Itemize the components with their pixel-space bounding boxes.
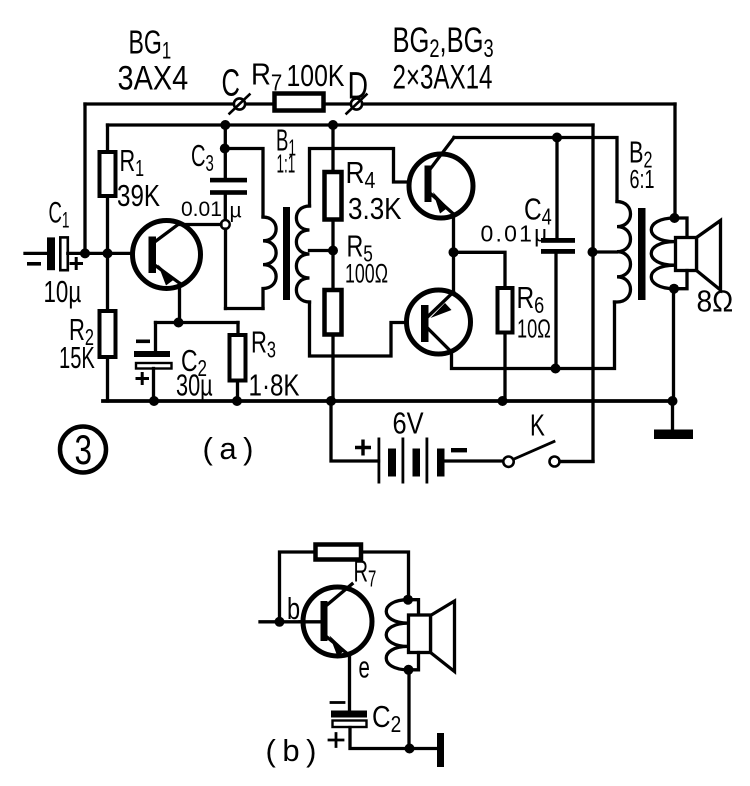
svg-text:BG2,BG3: BG2,BG3 bbox=[393, 21, 494, 63]
capacitor C2b plus sign bbox=[329, 734, 343, 747]
capacitor C3 plate top bbox=[210, 178, 247, 183]
wire R7b left to base node bbox=[280, 552, 316, 622]
speaker b box bbox=[409, 615, 431, 653]
svg-text:30µ: 30µ bbox=[176, 368, 213, 403]
svg-text:C: C bbox=[222, 61, 240, 103]
wire ground stub bbox=[671, 401, 674, 430]
svg-text:3.3K: 3.3K bbox=[348, 192, 402, 227]
wire supply drop right side bbox=[560, 125, 593, 462]
node dot base-left bbox=[80, 248, 90, 258]
svg-text:µ: µ bbox=[230, 200, 242, 223]
capacitor C4 plate bottom bbox=[541, 249, 575, 254]
transistor BG1 emitter bbox=[156, 266, 180, 284]
wire R7b right down bbox=[361, 552, 409, 598]
wire branch down to C3 bbox=[224, 149, 227, 179]
svg-text:100K: 100K bbox=[287, 58, 345, 92]
svg-text:0.01µ: 0.01µ bbox=[481, 221, 550, 247]
svg-text:(b): (b) bbox=[266, 733, 323, 768]
node dot C4 top bbox=[552, 133, 562, 143]
svg-text:6V: 6V bbox=[393, 406, 424, 441]
wire BG3 collector to B2 primary bottom bbox=[452, 302, 615, 369]
svg-text:3AX4: 3AX4 bbox=[118, 58, 189, 97]
capacitor C2 negative plate bbox=[134, 351, 170, 357]
wire emitter row bbox=[156, 321, 239, 324]
wire base into bar bbox=[300, 620, 321, 623]
node D terminal circle bbox=[351, 98, 362, 109]
node dot base b bbox=[275, 617, 285, 627]
switch K lever bbox=[514, 442, 554, 460]
capacitor C2b minus mark bbox=[331, 701, 344, 704]
wire BG2 collector line to B2 primary top bbox=[454, 138, 617, 202]
resistor R1 bbox=[100, 152, 116, 196]
node collector open circle bbox=[221, 220, 230, 229]
transistor b emitter arrowhead bbox=[330, 636, 346, 657]
switch K left contact bbox=[503, 457, 513, 467]
wire speaker b top jog bbox=[408, 600, 419, 615]
transistor BG3 collector bbox=[429, 329, 452, 352]
battery cell plate long 3 bbox=[426, 438, 429, 484]
svg-text:1:1: 1:1 bbox=[277, 150, 296, 179]
transistor BG1 collector bbox=[156, 225, 221, 242]
wire emitters to R6 bbox=[454, 252, 506, 288]
wire input lead to C1 bbox=[25, 252, 47, 255]
svg-text:8Ω: 8Ω bbox=[697, 284, 734, 319]
wire B1 center tap bbox=[310, 249, 334, 252]
capacitor C2b negative plate bbox=[331, 711, 367, 718]
wire up to speaker b bbox=[407, 670, 410, 749]
transistor BG1 emitter arrowhead bbox=[158, 265, 174, 286]
battery cell plate long 1 bbox=[378, 438, 381, 484]
label C2a minus bbox=[136, 340, 150, 344]
svg-text:15K: 15K bbox=[59, 340, 95, 376]
svg-text:1·8K: 1·8K bbox=[249, 368, 300, 403]
wire C3 to collector node bbox=[224, 195, 227, 220]
transformer B2 core bbox=[638, 208, 646, 300]
wire down to C2 bbox=[154, 323, 157, 351]
label battery minus bbox=[451, 448, 467, 452]
svg-text:39K: 39K bbox=[117, 178, 160, 213]
wire R2 to bottom rail bbox=[106, 357, 109, 401]
label C2a plus bbox=[136, 372, 150, 385]
transistor BG3 emitter bbox=[429, 292, 454, 316]
transistor BG3 emitter arrowhead bbox=[431, 303, 452, 318]
resistor R2 bbox=[100, 311, 116, 357]
svg-text:b: b bbox=[287, 591, 300, 626]
wire C2b to ground row bbox=[350, 728, 437, 749]
node D slash bbox=[347, 95, 367, 114]
wire BG2 emitter down bbox=[452, 214, 455, 292]
transistor BG2 collector bbox=[431, 138, 454, 169]
node dot R4-R5 tap bbox=[328, 246, 338, 256]
wire left edge from top rail to base node bbox=[83, 104, 86, 253]
wire speaker bottom jog bbox=[674, 271, 687, 289]
node dot speaker bottom bbox=[669, 284, 679, 294]
wire emitter row to R3 bbox=[236, 323, 239, 336]
svg-text:K: K bbox=[530, 408, 545, 442]
node dot emitters mid bbox=[449, 247, 459, 257]
wire tap to R5 bbox=[331, 251, 334, 291]
svg-text:3: 3 bbox=[75, 426, 93, 474]
svg-text:100Ω: 100Ω bbox=[345, 258, 388, 289]
transformer B1 core bbox=[283, 207, 290, 300]
svg-text:6:1: 6:1 bbox=[630, 165, 655, 194]
wire speaker b bottom jog bbox=[409, 653, 419, 670]
wire R3 to bottom rail bbox=[236, 381, 239, 402]
battery cell plate short 2 bbox=[413, 449, 421, 477]
wire BG1 emitter down bbox=[178, 284, 181, 323]
node dot rail-R3 bbox=[232, 396, 242, 406]
transistor b base bar bbox=[321, 601, 328, 641]
svg-text:D: D bbox=[348, 66, 369, 108]
speaker box bbox=[676, 238, 697, 271]
wire rail2 to R4 bbox=[331, 125, 334, 172]
wire emitter b down to C2 bbox=[348, 656, 351, 711]
capacitor C3 plate bottom bbox=[210, 190, 247, 195]
ground bar bbox=[654, 430, 693, 440]
wire R5 to bottom rail bbox=[331, 335, 334, 402]
transistor BG3 circle bbox=[407, 290, 471, 354]
speaker cone bbox=[697, 221, 721, 291]
node dot speaker b top bbox=[403, 595, 413, 605]
node dot speaker b bottom bbox=[404, 665, 414, 675]
transistor BG3 base bar bbox=[421, 305, 429, 342]
node dot rail-R5-battery bbox=[326, 396, 336, 406]
resistor R7 top bbox=[275, 94, 324, 111]
wire rail2 to R1 bbox=[106, 125, 109, 152]
node dot C4 bottom bbox=[551, 364, 561, 374]
wire R6 to bottom rail bbox=[503, 333, 506, 402]
label C1 plus bbox=[70, 257, 84, 270]
capacitor C1 negative plate bbox=[47, 237, 55, 270]
svg-text:2×3AX14: 2×3AX14 bbox=[393, 59, 493, 97]
speaker b cone bbox=[431, 601, 455, 672]
transistor b circle bbox=[303, 587, 372, 656]
wire speaker bottom to rail end bbox=[672, 289, 675, 401]
node C terminal circle bbox=[234, 98, 245, 109]
svg-text:10µ: 10µ bbox=[44, 274, 82, 308]
wire R1 to R2 bbox=[106, 196, 109, 311]
node dot rail2-C3 bbox=[220, 120, 230, 130]
wire switch to supply drop bbox=[560, 460, 593, 463]
wire battery to switch bbox=[445, 459, 504, 462]
battery cell plate short 1 bbox=[388, 449, 396, 477]
node dot rail2-R4 bbox=[328, 120, 338, 130]
svg-text:0.01: 0.01 bbox=[181, 198, 222, 221]
wire to B1 primary bottom bbox=[226, 307, 264, 310]
wire rail2 down to branch bbox=[224, 125, 227, 149]
capacitor C4 plate top bbox=[541, 238, 575, 243]
wire C4 bottom lead bbox=[554, 254, 557, 369]
transistor b collector bbox=[328, 584, 353, 605]
wire battery feed left bbox=[331, 401, 379, 461]
wire R4 to tap node bbox=[331, 220, 334, 251]
resistor R5 bbox=[325, 290, 342, 335]
node dot speaker top bbox=[670, 213, 680, 223]
resistor R7 in (b) bbox=[316, 545, 362, 560]
wire bottom rail bbox=[103, 399, 673, 403]
node dot ground row b bbox=[405, 744, 415, 754]
resistor R4 bbox=[325, 172, 342, 220]
ground bar b bbox=[437, 733, 444, 767]
wire C2 to bottom rail bbox=[152, 369, 155, 402]
svg-text:e: e bbox=[359, 649, 370, 684]
label C1 minus bbox=[27, 262, 41, 266]
winding b bbox=[386, 600, 408, 670]
wire collector node down bbox=[224, 229, 227, 309]
transistor BG2 circle bbox=[409, 154, 473, 218]
battery cell plate short 3 bbox=[437, 449, 445, 477]
capacitor C1 positive plate bbox=[60, 237, 68, 270]
node dot emitter bbox=[174, 318, 184, 328]
wire B1 secondary top to BG2 base bbox=[310, 149, 425, 207]
transformer B1 secondary winding bbox=[296, 206, 309, 302]
resistor R3 bbox=[230, 335, 246, 381]
switch K right contact bbox=[550, 457, 560, 467]
battery cell plate long 2 bbox=[402, 438, 405, 484]
figure number circle 3 bbox=[60, 427, 106, 473]
resistor R6 bbox=[498, 288, 513, 333]
wire B1 secondary bottom to BG3 base bbox=[310, 302, 422, 356]
transistor BG2 emitter arrowhead bbox=[433, 192, 448, 214]
wire right edge down to speaker top bbox=[673, 104, 676, 218]
label battery plus bbox=[355, 440, 371, 456]
transistor BG2 emitter bbox=[431, 194, 454, 214]
node dot rail-R6 bbox=[498, 396, 508, 406]
transformer B2 primary winding bbox=[615, 202, 631, 303]
wire input stub b bbox=[260, 620, 305, 623]
wire speaker top jog bbox=[675, 218, 688, 238]
transformer B1 primary winding bbox=[263, 217, 276, 309]
transistor BG2 base bar bbox=[425, 166, 432, 203]
node dot rail-C2 bbox=[149, 396, 159, 406]
wire supply rail 2 bbox=[108, 123, 594, 126]
svg-text:10Ω: 10Ω bbox=[517, 314, 551, 343]
node dot branch B1-C3 bbox=[220, 144, 230, 154]
transistor BG1 circle bbox=[133, 221, 201, 289]
node dot base-R1R2 bbox=[103, 248, 113, 258]
wire C4 top lead bbox=[555, 138, 558, 239]
node dot rail-ground bbox=[668, 396, 678, 406]
wire branch to B1 primary top bbox=[225, 149, 263, 218]
svg-text:(a): (a) bbox=[203, 431, 260, 466]
node dot B2 tap supply bbox=[588, 247, 598, 257]
transistor BG1 base bar bbox=[149, 237, 157, 274]
node C slash bbox=[230, 95, 250, 114]
transistor b emitter bbox=[328, 638, 350, 656]
capacitor C2b positive plate bbox=[333, 721, 367, 728]
wire B2 center tap bbox=[593, 250, 617, 253]
wire top rail feedback line bbox=[85, 102, 675, 105]
transformer B2 secondary winding bbox=[651, 218, 674, 289]
capacitor C2 positive plate bbox=[136, 363, 172, 369]
wire C1 to base bbox=[68, 252, 149, 255]
